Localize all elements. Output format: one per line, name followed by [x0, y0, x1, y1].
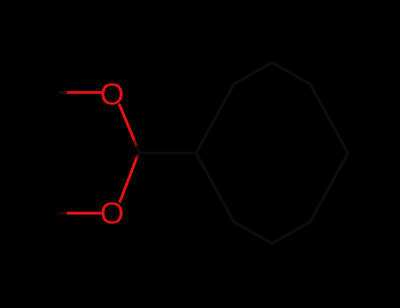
wire: methyl bond CH3-O bottom (dark carbon half) — [60, 212, 68, 215]
wire: bond O1-C acetal (red oxygen part) — [120, 105, 135, 141]
wire: methyl bond CH3-O top (red oxygen half) — [68, 91, 101, 94]
wire: bond O2-C acetal (red oxygen part) — [120, 157, 137, 202]
wire: methyl bond CH3-O top (dark carbon half) — [60, 91, 68, 94]
wire: bond O1-C acetal (dark carbon tip) — [137, 147, 140, 153]
wire: bond acetal C to ring — [140, 152, 196, 155]
wire: methyl bond CH3-O bottom (red oxygen half) — [68, 212, 101, 215]
wire: bond O2-C acetal (fading red part) — [137, 155, 139, 158]
ring: cyclooctane octagon — [196, 63, 348, 244]
wire: bond O2-C acetal (dark carbon tip) — [139, 153, 141, 155]
wire: bond O1-C acetal (fading red part) — [135, 141, 138, 147]
